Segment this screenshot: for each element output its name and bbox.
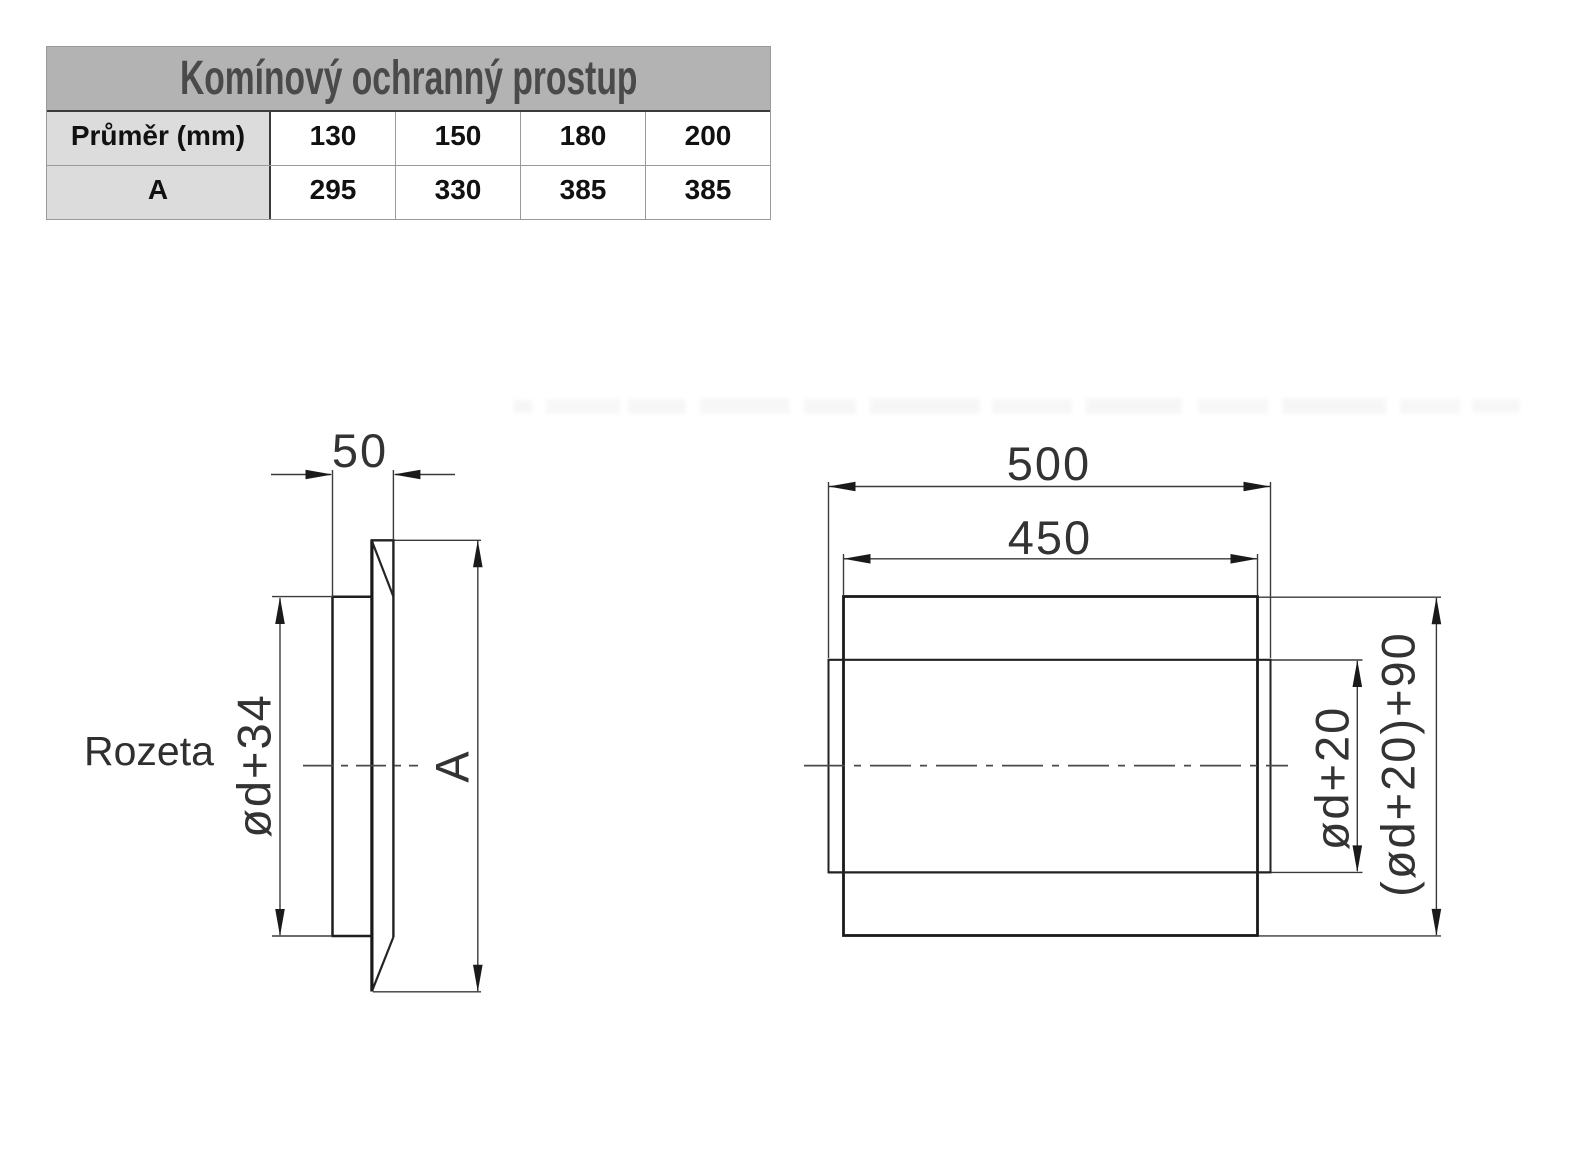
inner pipe bottom edge — [829, 871, 1271, 873]
dimension od+20 text — [1305, 706, 1358, 851]
dimension 50 text — [332, 424, 388, 477]
svg-text:ød+34: ød+34 — [227, 693, 280, 838]
rozeta cone bottom chamfer — [373, 937, 394, 990]
inner pipe left end cap — [828, 659, 830, 874]
outer sleeve rectangle — [844, 597, 1258, 936]
dimension A lines and arrows — [373, 540, 481, 992]
svg-text:A: A — [425, 749, 478, 782]
dimension (od+20)+90 text — [1371, 631, 1424, 897]
rozeta flange left edge — [370, 540, 373, 992]
label Rozeta — [84, 728, 214, 774]
dimension 50 lines and arrows — [271, 470, 455, 597]
table row A — [47, 166, 770, 219]
table header — [47, 47, 770, 112]
dimension od+34 lines and arrows — [272, 597, 331, 936]
dimension A text — [425, 749, 478, 782]
svg-text:Rozeta: Rozeta — [84, 728, 214, 774]
svg-text:ød+20: ød+20 — [1305, 706, 1358, 851]
pipe centerline — [804, 765, 1288, 767]
svg-text:500: 500 — [1007, 437, 1091, 490]
data table: Kominovy ochranny prostup — [46, 46, 771, 220]
inner pipe right end cap — [1270, 659, 1272, 874]
dimension (od+20)+90 lines and arrows — [1259, 597, 1442, 936]
rozeta flange top edge — [371, 539, 395, 541]
table row Prumer — [47, 112, 770, 166]
dimension 450 lines and arrows — [844, 554, 1258, 596]
svg-text:(ød+20)+90: (ød+20)+90 — [1371, 631, 1424, 897]
rozeta centerline — [303, 765, 418, 767]
svg-text:450: 450 — [1008, 511, 1092, 564]
dimension od+34 text — [227, 693, 280, 838]
dimension od+20 lines and arrows — [1272, 660, 1363, 872]
rozeta cone top chamfer — [373, 543, 394, 597]
faint watermark band — [510, 396, 1540, 420]
dimension 500 text — [1007, 437, 1091, 490]
rozeta flange right edge — [392, 540, 394, 937]
rozeta tube body — [331, 597, 373, 936]
inner pipe top edge — [829, 659, 1271, 661]
svg-text:50: 50 — [332, 424, 388, 477]
dimension 450 text — [1008, 511, 1092, 564]
dimension 500 lines and arrows — [829, 482, 1271, 658]
